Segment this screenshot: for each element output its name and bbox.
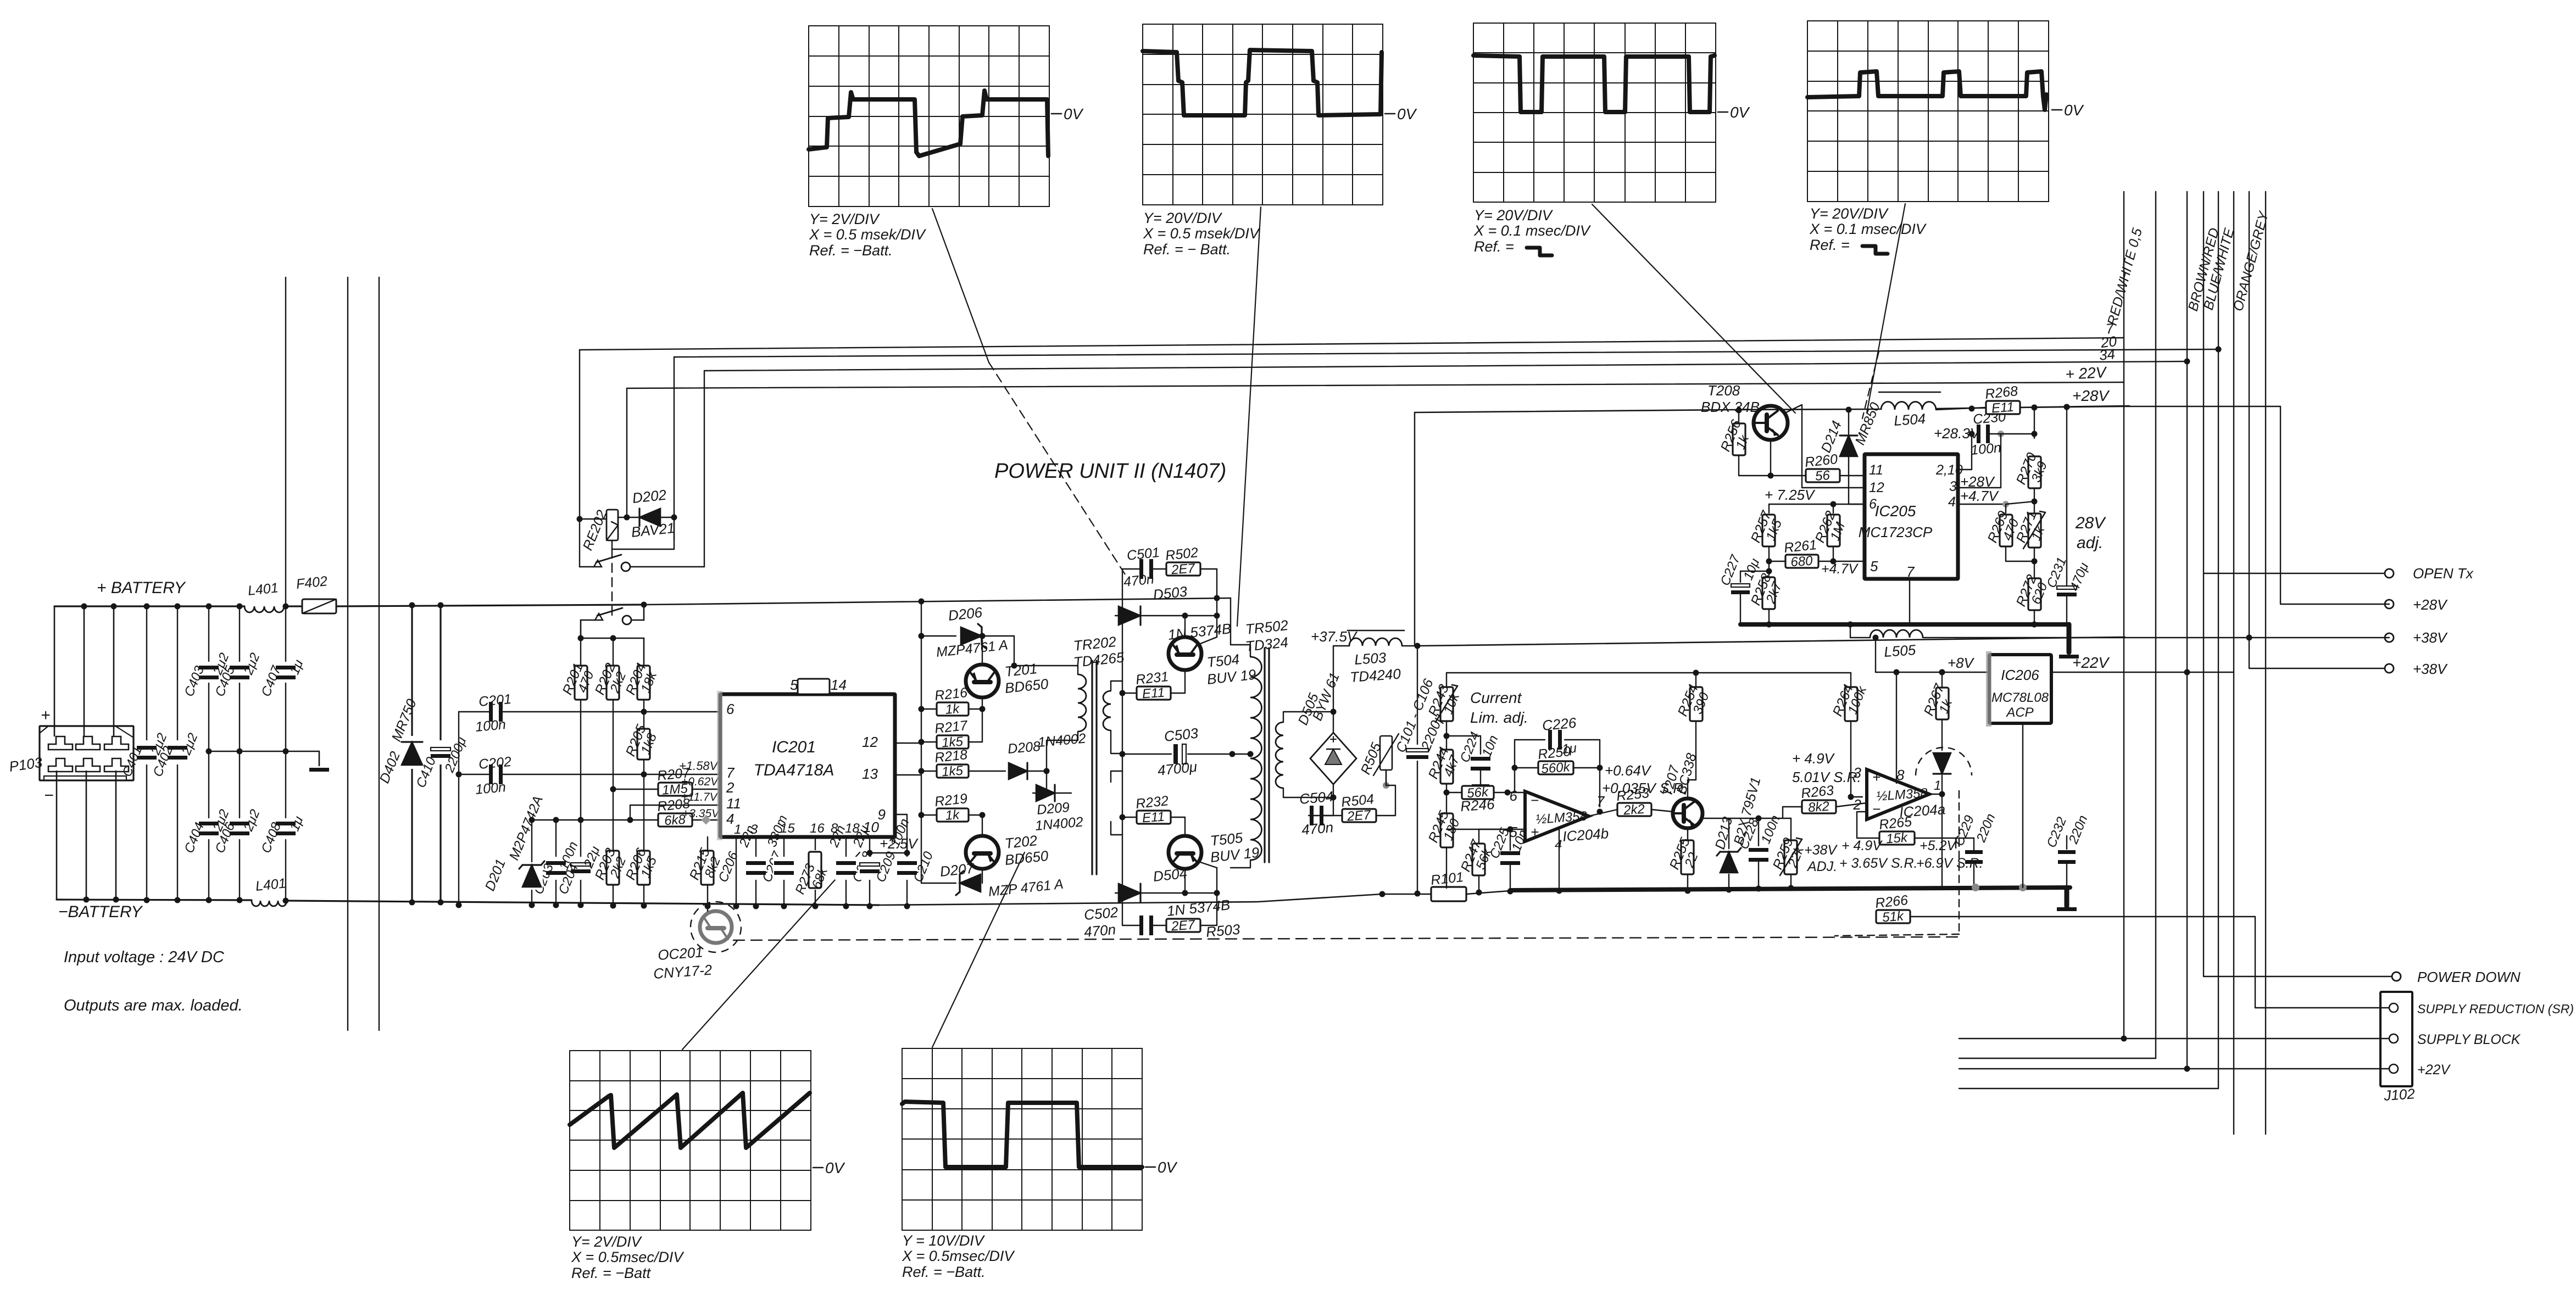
label +5.2V +6.9VSR	[1916, 838, 1983, 871]
connector J102	[2380, 992, 2416, 1104]
wire main positive rail	[644, 598, 1231, 605]
svg-text:MC1723CP: MC1723CP	[1859, 524, 1933, 540]
wire top feedback rail	[1446, 670, 1851, 676]
svg-text:1k: 1k	[945, 807, 961, 823]
terminal SUPPLY BLOCK	[1959, 1032, 2521, 1047]
wire IC204a minus input	[1851, 802, 1867, 803]
svg-text:13: 13	[862, 766, 878, 782]
wire bundle vertical 6 (BLUE/WHITE)	[2233, 192, 2234, 1134]
wire bus line +22V	[627, 382, 2124, 388]
diode D402 MR750	[377, 602, 423, 906]
svg-text:12: 12	[862, 734, 878, 750]
wire D202 right	[659, 515, 677, 521]
wire opamp b feedback	[1507, 740, 1617, 816]
wire dashed isolation line	[733, 937, 1959, 940]
svg-text:6: 6	[1510, 788, 1518, 804]
wire C201/C202 return	[456, 712, 462, 908]
svg-text:X = 0.1 msec/DIV: X = 0.1 msec/DIV	[1473, 222, 1592, 239]
wire RE202 to D202	[618, 515, 641, 521]
capacitor C408	[259, 751, 307, 904]
wire pin4 net	[1958, 501, 2034, 507]
capacitor C228 100n	[1729, 813, 1791, 892]
svg-text:34: 34	[2098, 345, 2116, 364]
svg-text:E11: E11	[1991, 400, 2015, 416]
wire RE202 bypass loop	[612, 517, 674, 549]
svg-text:R246: R246	[1460, 796, 1495, 814]
svg-text:X = 0.5 msek/DIV: X = 0.5 msek/DIV	[1143, 225, 1261, 242]
diode D214 MR850	[1818, 400, 1883, 504]
svg-text:J102: J102	[2383, 1085, 2416, 1104]
wire pin9/10 to C210	[895, 814, 910, 856]
resistor R257 1k5	[1748, 504, 1865, 565]
resistor R260 56	[1739, 440, 1865, 484]
label +0.035VSR	[1602, 780, 1687, 796]
resistor R262 1M	[1812, 501, 1848, 565]
label +22V (IC206)	[2072, 654, 2110, 671]
label 20	[2099, 333, 2117, 351]
capacitor C503 4700u	[1120, 725, 1236, 779]
ground (main bus)	[2057, 888, 2077, 911]
wire R-top rail	[578, 635, 644, 666]
thermistor R505	[1358, 720, 1399, 785]
svg-text:2: 2	[726, 779, 735, 796]
wire P103 pin wires	[54, 604, 119, 903]
resistor R219 1k	[919, 791, 986, 836]
svg-text:IC206: IC206	[2001, 667, 2039, 683]
svg-text:+ BATTERY: + BATTERY	[97, 579, 186, 597]
wire T504 collector rail	[1214, 595, 1231, 638]
diode D202 BAV21	[630, 487, 675, 540]
svg-text:SUPPLY REDUCTION (SR): SUPPLY REDUCTION (SR)	[2417, 1002, 2574, 1016]
resistor R264 100k	[1830, 673, 1870, 721]
wire +7.25V rail	[1769, 496, 1865, 498]
svg-text:OPEN Tx: OPEN Tx	[2413, 565, 2474, 582]
wire +37.5V drop	[1415, 412, 1417, 894]
ground (battery filter)	[309, 751, 329, 772]
wire pin3 net	[1958, 434, 2001, 488]
oscillogram grid 6 (square, 10V/DIV)	[902, 1048, 1178, 1280]
wire mid ground rail	[209, 751, 319, 752]
svg-text:2E7: 2E7	[1346, 807, 1372, 824]
svg-text:Ref. = −Batt.: Ref. = −Batt.	[902, 1264, 986, 1280]
wire pin7 to bus	[1909, 579, 1910, 624]
svg-text:X = 0.1 msec/DIV: X = 0.1 msec/DIV	[1809, 221, 1927, 237]
svg-text:5.01V S.R.: 5.01V S.R.	[1792, 769, 1861, 785]
svg-text:POWER UNIT II (N1407): POWER UNIT II (N1407)	[994, 460, 1226, 483]
resistor R266 51k	[1851, 838, 2255, 1008]
label +7.25V	[1765, 487, 1816, 503]
svg-text:+5.2V: +5.2V	[1920, 838, 1957, 853]
label +22V (bus)	[2065, 364, 2108, 383]
wire bundle vertical 8 (ORANGE/GREY)	[2184, 192, 2266, 1134]
svg-text:Ref. =: Ref. =	[1474, 238, 1514, 255]
svg-text:0V: 0V	[1158, 1159, 1178, 1176]
svg-text:+ 7.25V: + 7.25V	[1765, 487, 1816, 503]
resistor R245 180	[1426, 808, 1463, 888]
diode D504 1N5374B	[1115, 865, 1231, 919]
svg-text:Y= 20V/DIV: Y= 20V/DIV	[1143, 210, 1223, 226]
wire -BATTERY rail	[57, 900, 879, 905]
IC IC205 MC1723CP	[1859, 454, 1963, 580]
svg-text:+2.5V: +2.5V	[880, 835, 919, 852]
transformer TR502 TD324	[1231, 617, 1289, 868]
wire mid vertical to R101	[1415, 412, 1417, 894]
svg-text:D208: D208	[1007, 739, 1041, 757]
svg-text:1k5: 1k5	[941, 763, 964, 780]
wire +8V rail	[1873, 635, 1990, 676]
wire pin3	[1958, 446, 1989, 488]
wire pin2,10	[1958, 434, 1972, 470]
svg-text:L401: L401	[255, 875, 287, 894]
transformer TR203 TD4265	[1111, 771, 1122, 835]
svg-text:+: +	[1872, 769, 1880, 785]
label +28.3V	[1934, 425, 1981, 442]
svg-text:+ 4.9V: + 4.9V	[1792, 750, 1835, 767]
wire +BATTERY rail	[54, 605, 644, 606]
inductor L503 TD4240	[1348, 630, 1421, 685]
wire T505 emitter	[1214, 868, 1220, 925]
optocoupler OC201 CNY17-2	[653, 902, 741, 982]
resistor R231 E11	[1120, 669, 1186, 701]
oscillogram grid 3 (20V/DIV pulse train)	[1473, 23, 1750, 255]
svg-text:4: 4	[1555, 838, 1562, 852]
capacitor C405	[213, 604, 263, 755]
wire bridge + to L503	[1333, 646, 1349, 712]
capacitor C101-C106 2200u	[1393, 646, 1447, 897]
wire opamp plus input	[1479, 792, 1525, 833]
label 7	[2105, 320, 2115, 337]
capacitor C227 10u	[1718, 552, 1769, 624]
wire stub line (1927)	[1959, 1058, 2156, 1059]
svg-text:8: 8	[1896, 767, 1905, 783]
capacitor C204 22u	[556, 820, 603, 908]
leader line from grid 4	[1862, 204, 1905, 418]
svg-text:SUPPLY BLOCK: SUPPLY BLOCK	[2417, 1032, 2521, 1047]
svg-text:−BATTERY: −BATTERY	[58, 903, 143, 921]
wire IC204a out to R266	[1941, 794, 1943, 887]
wire +28V top rail	[1415, 406, 2129, 412]
svg-text:1: 1	[1934, 778, 1941, 793]
resistor R201	[560, 638, 597, 820]
label +28V (rail)	[2072, 387, 2110, 404]
fuse F402	[296, 573, 336, 613]
svg-text:2k2: 2k2	[1622, 802, 1645, 818]
resistor R270 3k9	[2013, 405, 2050, 505]
wire line22 drop	[626, 388, 627, 517]
resistor R232 E11	[1120, 793, 1186, 836]
svg-text:470n: 470n	[1301, 819, 1334, 838]
diode D208 1N4002	[1007, 730, 1087, 779]
svg-text:Y= 2V/DIV: Y= 2V/DIV	[571, 1233, 643, 1250]
svg-text:6: 6	[726, 701, 735, 717]
capacitor C407	[259, 604, 307, 755]
capacitor C232 220n	[2044, 813, 2091, 887]
svg-text:7: 7	[1906, 563, 1915, 580]
svg-text:BDX 34B: BDX 34B	[1701, 399, 1760, 415]
svg-text:C226: C226	[1542, 715, 1577, 734]
svg-text:+22V: +22V	[2072, 654, 2110, 671]
transistor T207 BC338	[1660, 721, 1703, 842]
resistor R267 1k	[1921, 669, 1956, 720]
svg-text:+38V: +38V	[2413, 629, 2448, 646]
wire T208 base	[1739, 439, 1771, 476]
svg-text:470n: 470n	[1083, 921, 1116, 940]
label +1.58V	[679, 759, 719, 773]
resistor R202	[592, 638, 629, 789]
transistor T505 BUV19	[1169, 829, 1260, 896]
wire stub line (1982)	[1959, 1088, 2218, 1089]
transistor T201 BD650	[966, 633, 1049, 698]
capacitor C210 100n	[888, 817, 937, 909]
wire pin5	[1833, 561, 1865, 562]
svg-text:0V: 0V	[1730, 104, 1750, 121]
label +11.7V	[681, 791, 719, 803]
wire pin11 run	[1805, 470, 1865, 476]
terminal +38V (1)	[2385, 629, 2448, 646]
relay coil RE202	[577, 508, 619, 552]
resistor R206	[623, 774, 660, 909]
wire T208 emitter/12	[1771, 405, 1865, 488]
wire pin6 +7.25V	[1765, 504, 1865, 505]
wire line7 drop	[579, 350, 580, 567]
svg-text:IC201: IC201	[772, 738, 816, 756]
resistor R502 2E7	[1165, 545, 1217, 598]
svg-text:+38V: +38V	[1804, 842, 1838, 858]
svg-text:C201: C201	[478, 691, 512, 710]
label +4.9V +3.65VSR	[1839, 838, 1917, 871]
wire +38V second leg	[2249, 638, 2385, 668]
svg-text:1k: 1k	[945, 701, 961, 717]
svg-text:IC205: IC205	[1875, 503, 1916, 520]
svg-text:+38V: +38V	[2413, 661, 2448, 677]
capacitor C225 10n	[1487, 825, 1531, 894]
svg-text:+ 22V: + 22V	[2065, 364, 2108, 383]
svg-text:L503: L503	[1354, 649, 1387, 668]
wire bus line 20	[674, 349, 2218, 357]
resistor R273 68k	[793, 837, 831, 909]
svg-text:28V: 28V	[2075, 514, 2106, 532]
potentiometer R259 22k	[1770, 818, 1807, 891]
label ORANGE/GREY	[2230, 209, 2272, 312]
svg-text:0V: 0V	[1397, 105, 1417, 122]
svg-text:14: 14	[831, 677, 847, 693]
inductor L505	[1850, 630, 2389, 660]
wire +28V to output	[2124, 406, 2389, 604]
label current lim adj	[1470, 689, 1528, 726]
leader line from grid 5	[682, 852, 860, 1050]
resistor R265 15k	[1851, 812, 1956, 846]
svg-text:IC204b: IC204b	[1562, 825, 1609, 845]
leader line from grid 3	[1592, 204, 1795, 413]
svg-text:C202: C202	[478, 754, 512, 772]
wire L505 from bus	[1848, 622, 1854, 638]
wire C227 top	[1740, 568, 1772, 574]
capacitor C224 10n	[1446, 730, 1501, 789]
capacitor C230 100n	[1958, 409, 2038, 488]
wire vertical bus B	[347, 277, 348, 1030]
terminal +38V (2)	[2385, 661, 2448, 677]
wire snubber top rail	[1122, 568, 1139, 570]
oscillogram grid 1 (IC201 pin ramp, 2V/DIV)	[809, 26, 1084, 259]
svg-text:4: 4	[726, 811, 734, 827]
resistor R268 E11	[1984, 383, 2124, 416]
svg-text:3: 3	[1854, 764, 1862, 781]
capacitor C401	[120, 604, 170, 903]
oscillogram grid 2 (20V/DIV square wave)	[1143, 24, 1417, 258]
svg-text:+8V: +8V	[1948, 655, 1975, 671]
wire bus line 7	[580, 338, 2124, 350]
svg-text:2E7: 2E7	[1170, 917, 1196, 934]
transformer TR202 TD4265	[1014, 633, 1125, 874]
resistor R255 22	[1667, 835, 1701, 894]
capacitor C501 470n	[1123, 545, 1166, 590]
capacitor C202 100n	[459, 754, 720, 797]
svg-text:Y= 20V/DIV: Y= 20V/DIV	[1474, 207, 1554, 224]
wire S2 to R-rail	[580, 620, 582, 638]
leader line from grid 1	[932, 209, 1125, 574]
svg-text:3: 3	[1949, 479, 1957, 494]
wire thick 28V ground bus	[1740, 624, 2079, 658]
wire bundle vertical 2	[2155, 192, 2156, 1058]
terminal +22V (J102)	[1959, 1062, 2451, 1078]
svg-text:+4.7V: +4.7V	[1960, 488, 1999, 504]
wire R-cluster ground rail	[532, 819, 581, 820]
wire line34 drop	[704, 371, 705, 567]
svg-text:+28V: +28V	[2413, 596, 2448, 613]
resistor R217 1k5	[919, 709, 983, 750]
svg-text:Outputs are max. loaded.: Outputs are max. loaded.	[64, 997, 243, 1014]
wire bundle vertical 3	[2184, 192, 2190, 1072]
wire opamp a feedback R265	[1771, 838, 1879, 839]
label +38V ADJ	[1804, 842, 1838, 874]
svg-text:Ref. = −Batt: Ref. = −Batt	[571, 1265, 652, 1281]
resistor R246 56k	[1446, 785, 1525, 815]
transformer TR502 secondary winding	[1276, 712, 1333, 797]
node bus junctions	[1972, 884, 2027, 891]
IC IC201 TDA4718A	[717, 677, 895, 840]
svg-text:12: 12	[1869, 480, 1884, 495]
diode (soft start) with dashed bubble	[1835, 719, 1972, 936]
wire thick ground bus	[1466, 887, 2070, 894]
resistor R253 2k2	[1616, 785, 1673, 818]
svg-text:560k: 560k	[1541, 760, 1572, 777]
capacitor 330n	[765, 813, 795, 909]
svg-text:X = 0.5msec/DIV: X = 0.5msec/DIV	[902, 1248, 1015, 1264]
svg-text:X = 0.5 msek/DIV: X = 0.5 msek/DIV	[809, 226, 927, 243]
zener D206 MZP4761A	[919, 604, 1017, 669]
resistor R247 56k	[1446, 829, 1507, 896]
label +4.9V 5.01VSR	[1792, 750, 1861, 785]
svg-text:5: 5	[1510, 824, 1518, 840]
capacitor C502 470n	[1083, 904, 1166, 940]
svg-text:C502: C502	[1083, 904, 1119, 923]
resistor R215	[687, 837, 724, 909]
wire IC204a V+ pin8	[1896, 672, 1897, 783]
wire bundle vertical 5 (BROWN/RED)	[2216, 192, 2222, 1089]
svg-text:6: 6	[1869, 496, 1877, 512]
resistor R218 1k5	[921, 747, 1005, 779]
resistor R207 1M5	[610, 765, 721, 798]
svg-text:0V: 0V	[2064, 102, 2084, 119]
capacitor C209 22u	[850, 823, 899, 909]
resistor R205	[623, 722, 660, 777]
label BLUE/WHITE	[2201, 226, 2238, 311]
wire bus line 34	[704, 361, 2187, 371]
note input voltage	[64, 948, 225, 966]
label RED/WHITE 0.5	[2105, 226, 2145, 327]
terminal +28V	[2385, 596, 2448, 613]
oscillogram grid 4 (20V/DIV pulse train)	[1807, 21, 2084, 254]
svg-text:+0.64V: +0.64V	[1605, 762, 1652, 779]
label +3.35V	[682, 807, 720, 820]
leader line from grid 2	[1237, 207, 1261, 626]
svg-text:ACP: ACP	[2005, 705, 2033, 720]
label +2.5V	[867, 835, 919, 856]
connector P103	[8, 706, 133, 805]
capacitor C404	[182, 751, 232, 903]
resistor R258 2k7	[1748, 561, 1785, 628]
svg-text:+4.7V: +4.7V	[1821, 561, 1859, 577]
wire vertical bus C	[379, 277, 380, 1030]
node +BATTERY label	[97, 579, 186, 597]
terminal OPEN Tx	[2204, 565, 2474, 582]
inductor L401 (top)	[244, 580, 284, 612]
svg-text:5: 5	[1870, 558, 1878, 574]
op-amp IC204b	[1510, 788, 1610, 894]
svg-text:+: +	[41, 706, 51, 724]
capacitor C231 470u	[2044, 404, 2092, 625]
wire bundle vertical 4	[2203, 192, 2204, 976]
label +4.7V pin4	[1960, 488, 1999, 504]
zener D207 MZP4761A	[921, 857, 1064, 900]
label 28V adj	[2075, 514, 2106, 552]
svg-text:+ 3.65V S.R.: + 3.65V S.R.	[1839, 856, 1917, 871]
svg-text:L505: L505	[1883, 641, 1916, 660]
wire R263 junction	[1782, 806, 1783, 807]
resistor R244 4k7	[1426, 745, 1463, 814]
transistor T504 BUV19	[1169, 613, 1257, 688]
IC IC206 MC78L08	[1986, 651, 2051, 727]
capacitor C229 220n	[1952, 812, 1999, 887]
svg-text:15k: 15k	[1885, 830, 1909, 847]
inductor L401 (bottom)	[252, 875, 287, 906]
wire left power rail	[1122, 569, 1123, 925]
capacitor C226 1u	[1542, 715, 1577, 757]
resistor R503 2E7	[1166, 917, 1241, 940]
svg-text:R503: R503	[1205, 921, 1241, 940]
svg-text:Y= 2V/DIV: Y= 2V/DIV	[809, 211, 881, 227]
resistor R203	[592, 789, 629, 909]
terminal SUPPLY REDUCTION	[2255, 1002, 2574, 1016]
resistor R256 1k	[1718, 408, 1752, 476]
wire pin1 C206	[716, 837, 742, 909]
svg-text:adj.: adj.	[2077, 534, 2103, 552]
resistor R269 470	[1985, 504, 2034, 561]
label +8V	[1948, 655, 1975, 671]
wire pin11	[627, 805, 721, 823]
wire driver left rail	[921, 601, 922, 857]
wire +37.5V rail to regulator	[1417, 637, 2125, 646]
svg-text:+28V: +28V	[2072, 387, 2110, 404]
wire bundle vertical 7	[2246, 192, 2252, 641]
label +37.5V	[1311, 628, 1358, 645]
label BROWN/RED	[2185, 226, 2222, 313]
potentiometer R243 10k	[1426, 673, 1463, 750]
oscillogram grid 5 (sawtooth, 2V/DIV)	[570, 1051, 845, 1281]
svg-text:E11: E11	[1142, 810, 1165, 826]
svg-text:L401: L401	[247, 580, 279, 599]
svg-text:8k2: 8k2	[1807, 799, 1829, 816]
